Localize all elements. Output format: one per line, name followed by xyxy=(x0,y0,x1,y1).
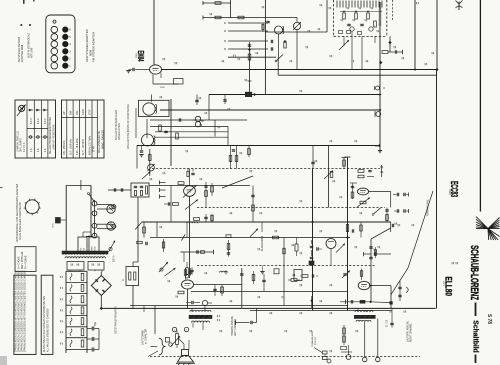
bus M ground xyxy=(101,307,435,309)
svg-text:5,95 - 18,4 MHz: 5,95 - 18,4 MHz xyxy=(77,138,79,155)
svg-text:TONBAND-ANS.: TONBAND-ANS. xyxy=(427,199,430,217)
svg-text:ADAPTER 9698: ADAPTER 9698 xyxy=(21,44,24,62)
tone row y252 xyxy=(180,251,213,253)
caps pair right xyxy=(396,209,398,212)
resistor above V301 xyxy=(178,182,184,185)
svg-text:145 - 285 kHz: 145 - 285 kHz xyxy=(64,140,66,155)
paper smudge bottom-left corner xyxy=(0,356,7,365)
svg-text:ABGEGLICHEN: ABGEGLICHEN xyxy=(118,123,121,140)
volume pot resistor xyxy=(176,334,179,345)
socket pins right column numbered xyxy=(63,27,68,32)
resistor above V305 xyxy=(360,271,362,277)
paper edge mark top-left xyxy=(23,0,25,4)
svg-text:MW = MITTELW.: MW = MITTELW. xyxy=(22,251,24,269)
abbreviation legend box xyxy=(15,247,36,272)
wire v7 AGC drop xyxy=(249,42,251,95)
mains transformer winding box 3 xyxy=(67,262,84,271)
top extra parts xyxy=(266,20,269,22)
tube V302 EM84 xyxy=(150,65,162,74)
capacitor C331 xyxy=(310,256,313,258)
coil small xyxy=(220,271,228,272)
svg-text:1571: 1571 xyxy=(442,281,444,287)
wire v390 xyxy=(389,36,391,52)
bus M2 xyxy=(130,305,348,307)
svg-text:RIGHT CHANNEL: RIGHT CHANNEL xyxy=(409,323,412,342)
ratio detector box xyxy=(131,183,149,197)
socket index hole xyxy=(53,20,56,23)
bus A anode xyxy=(161,69,437,71)
dropper ladder rails xyxy=(65,271,67,353)
resistor pair busEF xyxy=(229,156,232,162)
vertical 380 coil line xyxy=(379,2,381,151)
tube V301 wires xyxy=(189,169,191,186)
components left of V301 xyxy=(173,203,179,206)
bus E xyxy=(137,145,379,147)
column x253 xyxy=(252,186,254,223)
tuner value labels xyxy=(340,19,342,21)
svg-text:LAMPEN. TABELLE: LAMPEN. TABELLE xyxy=(17,131,20,152)
svg-text:JT 40: JT 40 xyxy=(94,146,96,152)
speaker 2 terminals xyxy=(364,322,366,358)
svg-text:510 - 1620 kHz: 510 - 1620 kHz xyxy=(71,138,73,155)
svg-text:S 78: S 78 xyxy=(486,314,492,324)
wire mid h3 xyxy=(155,136,228,138)
cluster x328 xyxy=(324,171,333,180)
svg-text:LAUTSTARKE: LAUTSTARKE xyxy=(142,330,145,345)
wire v13 xyxy=(214,120,216,137)
wire v B-drop xyxy=(277,57,279,75)
svg-text:V302: V302 xyxy=(135,53,137,59)
svg-text:1 A: 1 A xyxy=(37,148,40,152)
title dash 1 xyxy=(475,303,477,317)
DIN socket 2 xyxy=(107,222,115,230)
ECC83 pot xyxy=(360,201,366,204)
junction busE end xyxy=(378,144,381,147)
resistor chain under coil3 xyxy=(149,149,151,176)
capacitor C330 xyxy=(310,245,313,247)
tuner wires xyxy=(343,36,345,46)
mains transformer core xyxy=(62,251,108,254)
svg-text:1 A: 1 A xyxy=(30,148,33,152)
bus H dashed xyxy=(197,207,385,209)
tube V301 wiper arrow xyxy=(183,185,197,198)
svg-text:6,3 V: 6,3 V xyxy=(30,118,33,124)
valve base diagram xyxy=(25,200,39,214)
resistor R304 xyxy=(284,42,286,48)
speaker 1 xyxy=(182,350,189,356)
wire v311 low xyxy=(311,296,313,308)
headphone jack loop 2 xyxy=(97,223,111,225)
capacitor C341 xyxy=(240,273,243,275)
wire v34 xyxy=(261,222,263,232)
Schaub-Lorenz butterfly logo xyxy=(476,217,488,229)
IF coil 3 xyxy=(142,134,154,146)
svg-text:110: 110 xyxy=(84,248,86,251)
wire mid h1 xyxy=(150,119,247,121)
svg-text:DIAL LAMPS: DIAL LAMPS xyxy=(20,138,23,152)
germanium diodes xyxy=(195,116,200,121)
detector chain vertical xyxy=(137,197,139,262)
svg-text:MW: MW xyxy=(70,110,73,115)
label TA xyxy=(217,315,219,317)
capacitor C333 xyxy=(391,224,393,227)
svg-text:LAMP OF RESISTORS: LAMP OF RESISTORS xyxy=(52,124,55,150)
terminal stubs TA xyxy=(159,181,161,185)
svg-text:6,3 V: 6,3 V xyxy=(44,118,47,124)
svg-text:MIT UKW: MIT UKW xyxy=(31,47,34,58)
svg-text:PICK-UP: PICK-UP xyxy=(315,336,317,345)
capacitor under v391 xyxy=(390,322,393,324)
bass network xyxy=(273,236,279,239)
output transformer 2 core xyxy=(354,315,375,318)
value label marks xyxy=(162,58,164,60)
resistor R303 xyxy=(238,16,244,19)
switch S1 xyxy=(276,55,283,62)
pickup 1 xyxy=(109,241,116,253)
caps near ELL80 label xyxy=(398,286,401,288)
wire V305 out xyxy=(370,285,391,287)
socket pins left column xyxy=(51,26,58,33)
svg-text:SPANNUNGEN GEMESSEN MIT ROHREN: SPANNUNGEN GEMESSEN MIT ROHRENVOLTMETER … xyxy=(24,270,27,352)
svg-text:LAUTSPR. ANSCHL.: LAUTSPR. ANSCHL. xyxy=(407,320,410,342)
AGC tap tick xyxy=(248,80,252,82)
resistor R307 xyxy=(248,54,251,60)
treble parts xyxy=(346,225,348,232)
wire v19 xyxy=(347,158,349,311)
wire v228 xyxy=(227,126,229,145)
label mark row5 xyxy=(233,55,235,57)
wire v6 xyxy=(278,34,280,57)
IF box left lead xyxy=(135,108,137,138)
tuner trimmer arrow xyxy=(339,40,349,50)
bus L xyxy=(191,291,348,293)
pot P302 arrow xyxy=(250,229,258,238)
svg-text:LEFT CHANNEL: LEFT CHANNEL xyxy=(234,318,237,336)
capacitor C307 xyxy=(248,44,251,46)
wire ECC83 out xyxy=(369,191,391,193)
cap stub y322 xyxy=(235,320,237,324)
junction A 415 xyxy=(414,68,417,71)
vertical x344 xyxy=(343,158,345,169)
coil L311 xyxy=(295,244,298,251)
svg-text:ELL80: ELL80 xyxy=(443,277,454,297)
EM84 grid rows xyxy=(228,22,268,24)
tube V301 triode xyxy=(184,186,196,197)
diag to speaker xyxy=(148,351,158,357)
resistor R310 xyxy=(382,51,388,54)
resistor R341 xyxy=(178,291,184,294)
wire V304 out xyxy=(194,284,242,286)
output transformer 2 windings xyxy=(355,311,373,313)
svg-text:T0,25: T0,25 xyxy=(53,223,55,228)
resistor below bus I xyxy=(163,239,165,252)
bus N xyxy=(250,310,392,312)
dropper ladder resistors xyxy=(81,273,84,280)
mains transformer winding box 4 xyxy=(88,262,104,271)
capacitor C310 xyxy=(394,50,396,53)
bottom left cluster xyxy=(343,328,346,334)
tone column 1 xyxy=(227,244,230,250)
dial lamp table frame xyxy=(15,100,56,158)
tuner components xyxy=(343,13,346,19)
chassis pointer diagonal xyxy=(391,191,433,295)
mark below bus M xyxy=(389,311,391,313)
wire EM84 anode xyxy=(153,0,155,65)
tuner coil hatching xyxy=(336,1,338,8)
title dash 2 xyxy=(475,355,477,364)
label v415 top xyxy=(416,2,418,4)
wire top v2 xyxy=(229,0,231,18)
wire v437 xyxy=(436,0,438,70)
junction d2 xyxy=(248,48,251,51)
ground v380 xyxy=(378,150,382,152)
headphone jack loop 1 xyxy=(97,204,111,206)
DIN socket 1 xyxy=(107,205,115,213)
bridge rectifier xyxy=(91,276,111,296)
vertical x241 xyxy=(241,268,243,308)
svg-text:KLANGFARBE: KLANGFARBE xyxy=(261,235,264,251)
transformer to ladder leads xyxy=(69,270,71,271)
column x206 xyxy=(204,185,207,187)
mains transformer bumps bottom xyxy=(65,257,106,258)
wire v40 xyxy=(154,305,156,334)
caps pair upper xyxy=(396,193,398,196)
speaker output jacks xyxy=(94,200,96,236)
mains transformer winding box 2 xyxy=(89,237,99,253)
fuse resistor box xyxy=(126,267,139,286)
res chain below xyxy=(186,268,189,275)
tube V303a ECC83 xyxy=(357,188,368,195)
volume pot brace xyxy=(159,338,165,355)
components left of ECC83 xyxy=(351,185,354,187)
IF wires xyxy=(170,99,172,166)
svg-text:S282: S282 xyxy=(95,247,97,251)
title rule line xyxy=(479,0,481,212)
mains switch xyxy=(89,194,95,203)
vertical x328 xyxy=(328,146,330,208)
capacitor C320 xyxy=(195,99,198,101)
pot arrow P305 xyxy=(342,271,350,279)
clamp symbol 2 xyxy=(376,112,381,117)
FM tuner dashed box xyxy=(333,0,335,36)
wire top v4 xyxy=(326,0,328,32)
cap near coil3 xyxy=(140,150,143,152)
pickup socket parts xyxy=(323,351,328,354)
svg-text:Schaltbild: Schaltbild xyxy=(472,320,481,353)
terminal 2 xyxy=(184,327,188,331)
junction d6 xyxy=(346,236,349,239)
svg-text:FM STEREO ADAPTER: FM STEREO ADAPTER xyxy=(92,32,96,62)
bus O dashed xyxy=(150,356,420,358)
svg-text:UKW: UKW xyxy=(82,109,85,115)
pot P303 arrow xyxy=(336,244,345,253)
svg-text:SCHAUB-LORENZ: SCHAUB-LORENZ xyxy=(468,245,480,300)
svg-text:1 A: 1 A xyxy=(44,148,47,152)
svg-text:TONABNEHMER: TONABNEHMER xyxy=(311,331,314,347)
line row 5 xyxy=(228,56,276,58)
svg-text:SPULEN IN DIESEM GERAT: SPULEN IN DIESEM GERAT xyxy=(115,109,118,140)
column x387 xyxy=(385,209,388,211)
svg-text:6 V 0,1 A: 6 V 0,1 A xyxy=(23,142,26,152)
pot arrow ratio xyxy=(142,172,151,180)
terminal 1 xyxy=(172,327,176,331)
EM84 cathode loop xyxy=(152,74,154,84)
svg-text:m. SCHALTER: m. SCHALTER xyxy=(145,328,148,344)
svg-text:6,3 V: 6,3 V xyxy=(37,118,40,124)
svg-text:VALVE BASE SEEN FROM BELOW: VALVE BASE SEEN FROM BELOW xyxy=(19,202,22,240)
cluster busF right xyxy=(358,170,364,173)
svg-text:ROHRENSOCKEL VON DER UNTERSEIT: ROHRENSOCKEL VON DER UNTERSEITE GESEHEN xyxy=(17,184,19,242)
svg-text:TA = TONAB.: TA = TONAB. xyxy=(25,255,28,269)
wire v5 xyxy=(296,18,298,23)
svg-text:S = CHOKE: S = CHOKE xyxy=(19,256,21,269)
tube V305 ELL80b xyxy=(358,281,370,289)
smoothing capacitor 3 xyxy=(87,349,92,351)
svg-text:220: 220 xyxy=(81,248,83,251)
wire v304 down xyxy=(187,289,189,308)
diag pointer left xyxy=(222,176,253,188)
smoothing capacitor 2 xyxy=(87,338,92,340)
capacitor C313 xyxy=(223,99,226,101)
tube V303b xyxy=(326,239,336,249)
output transformer 1 windings xyxy=(190,310,211,312)
svg-text:460 kHz 10,7 MHz: 460 kHz 10,7 MHz xyxy=(89,135,91,155)
small note near logo xyxy=(451,262,453,264)
svg-text:ABGLEICH BEI 460 kHz ZF DURCHG: ABGLEICH BEI 460 kHz ZF DURCHGANG xyxy=(127,104,130,149)
caps row y301.8 xyxy=(345,300,347,305)
smoothing capacitor 1 xyxy=(87,328,92,330)
svg-text:50µ: 50µ xyxy=(95,321,97,326)
coupling caps top xyxy=(270,40,272,43)
switch right xyxy=(373,208,381,215)
wire v391 xyxy=(390,286,392,309)
bus K dashed xyxy=(197,265,375,267)
mains fuse xyxy=(56,218,61,224)
junction d4 xyxy=(379,61,382,64)
svg-text:ZF/IF: ZF/IF xyxy=(88,109,91,115)
mains rail wires xyxy=(65,186,67,252)
resistor R302 xyxy=(215,16,221,19)
output transformer 2 leads xyxy=(357,308,359,312)
column x212 xyxy=(211,186,214,192)
EM84 input cap xyxy=(126,70,130,72)
coil L310 xyxy=(187,222,197,223)
wire v17 xyxy=(312,169,314,311)
bus I xyxy=(142,221,391,223)
IF transformer box xyxy=(139,100,170,116)
svg-text:V303: V303 xyxy=(448,189,451,195)
switch tick bus J xyxy=(182,235,186,241)
wire v33 xyxy=(170,186,172,223)
wire v31 xyxy=(143,222,145,238)
wire top v3 xyxy=(264,0,266,95)
wire top h2 xyxy=(203,17,297,19)
note box 1 frame xyxy=(14,275,36,354)
bus D xyxy=(160,109,380,111)
output transformer 1 core xyxy=(189,315,212,318)
mains transformer bumps top xyxy=(63,253,107,254)
IF components xyxy=(159,125,162,131)
capacitor C312 tick xyxy=(431,52,433,54)
svg-text:NETZTRANSFORMATOR: NETZTRANSFORMATOR xyxy=(115,306,118,334)
bus F dashed xyxy=(152,168,380,170)
stub y254 xyxy=(363,252,365,256)
coil L301 xyxy=(275,26,283,34)
note box 2 frame xyxy=(41,275,53,354)
svg-text:PRIM: PRIM xyxy=(92,246,94,251)
junction d5 xyxy=(311,221,314,224)
coil L302 arrow xyxy=(293,22,300,29)
wire v436 xyxy=(436,70,438,309)
FM stereo adapter socket outline xyxy=(46,15,75,73)
pot arrow above V304 xyxy=(165,268,176,276)
wire top h1 xyxy=(203,2,231,4)
wire above switch xyxy=(80,180,82,190)
trimmer circle xyxy=(202,300,207,305)
dial lamp symbol xyxy=(18,105,24,111)
pot bracket parts xyxy=(166,338,170,343)
wave range table frame xyxy=(62,100,105,158)
junction d3 xyxy=(388,41,391,44)
svg-text:WAVE - RANGES: WAVE - RANGES xyxy=(101,130,104,149)
pot P301 arrow xyxy=(185,200,198,210)
wire mid h2 xyxy=(155,131,228,133)
coil ticks on v380 xyxy=(379,2,382,4)
antenna xyxy=(458,2,460,11)
stub y301.8 xyxy=(340,301,370,303)
svg-text:TONABN. ANSCHL.: TONABN. ANSCHL. xyxy=(231,315,234,336)
components above V304 xyxy=(184,270,186,276)
adapter note bullets xyxy=(20,24,22,26)
clamp symbol 1 xyxy=(376,86,380,90)
output transformer 1 leads xyxy=(191,308,193,311)
wire v415 xyxy=(414,0,416,70)
junction d1 xyxy=(284,40,287,43)
tube V304 ELL80a xyxy=(182,280,194,289)
jog wire xyxy=(371,228,391,239)
bus J xyxy=(150,237,350,239)
IF coil 1 xyxy=(143,103,155,115)
paper edge tick left xyxy=(0,187,3,189)
resistor R340 xyxy=(291,279,297,282)
row above bus L xyxy=(302,275,308,278)
dial lamp table cells xyxy=(28,109,33,111)
mains transformer winding box 1 xyxy=(78,237,87,253)
wire v12 xyxy=(208,95,210,121)
cap pair mid xyxy=(213,288,216,290)
dashed vertical x392 xyxy=(392,0,394,20)
bus C xyxy=(209,94,380,96)
wire top h3 xyxy=(265,31,327,33)
capacitor C342 xyxy=(191,301,193,304)
svg-text:ALL VALUES MEASURED TO CHASSIS: ALL VALUES MEASURED TO CHASSIS xyxy=(46,308,49,352)
resistor R301 xyxy=(215,2,221,5)
ratio output wire xyxy=(108,189,131,191)
svg-text:UKW STEREO ADAPTER: UKW STEREO ADAPTER xyxy=(85,29,89,62)
wire mid h0 xyxy=(150,125,228,127)
capacitor C315 xyxy=(311,161,314,163)
bus C left components xyxy=(245,92,251,96)
junction bar xyxy=(86,236,92,238)
speaker 1 leads xyxy=(183,344,185,350)
bus B screen xyxy=(278,74,437,76)
svg-text:51 702: 51 702 xyxy=(387,319,389,327)
resistor R315 xyxy=(248,149,251,155)
rectifier junction xyxy=(100,307,103,310)
wire v32 xyxy=(156,222,158,238)
pickup 2 xyxy=(159,262,168,272)
svg-text:220 V~: 220 V~ xyxy=(114,254,116,262)
